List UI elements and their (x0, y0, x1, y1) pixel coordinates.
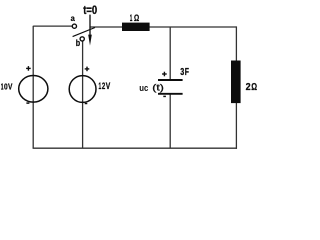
label 10V (1, 81, 13, 91)
svg-text:2: 2 (246, 81, 251, 93)
switch arrow stem (89, 15, 91, 36)
svg-text:1: 1 (130, 13, 133, 23)
svg-text:t=0: t=0 (83, 5, 97, 17)
svg-text:F: F (185, 67, 189, 78)
capacitor C top plate (158, 79, 183, 81)
wire 12V branch from contact b down (82, 41, 84, 148)
label 2 ohm (246, 81, 257, 93)
wire top-left from node to contact a (33, 25, 72, 27)
svg-text:Ω: Ω (134, 13, 139, 23)
wire right vertical branch (235, 26, 237, 148)
svg-text:1: 1 (99, 81, 102, 91)
resistor R2 2 ohm (black box) (231, 61, 241, 104)
capacitor plus sign (162, 72, 167, 77)
svg-text:b: b (76, 38, 81, 48)
V1 minus sign (26, 102, 29, 104)
voltage source V2 12V (69, 76, 96, 103)
wire top-right from switch pivot to top-right corner (90, 26, 236, 28)
switch arrow head (88, 35, 92, 46)
svg-text:V: V (8, 81, 13, 91)
wire left vertical branch (32, 26, 34, 148)
wire bottom horizontal (33, 147, 237, 149)
svg-text:(t): (t) (152, 83, 164, 93)
resistor R1 1 ohm (black box) (122, 23, 150, 31)
label 12V (99, 81, 111, 91)
V2 minus sign (85, 103, 88, 105)
V1 plus sign (26, 66, 31, 71)
V2 plus sign (85, 67, 90, 72)
capacitor minus sign (163, 95, 166, 97)
svg-text:a: a (71, 13, 75, 23)
switch contact a (72, 24, 76, 28)
svg-text:V: V (106, 81, 111, 91)
switch contact b (80, 37, 84, 41)
switch blade (73, 28, 95, 37)
svg-text:uc: uc (139, 83, 148, 93)
label 3F (180, 67, 189, 78)
wire capacitor branch upper (169, 27, 171, 80)
capacitor C bottom plate (158, 93, 183, 95)
wire capacitor branch lower (169, 94, 171, 148)
svg-text:Ω: Ω (251, 81, 257, 93)
voltage source V1 10V (19, 76, 48, 103)
label 1 ohm (130, 13, 139, 23)
